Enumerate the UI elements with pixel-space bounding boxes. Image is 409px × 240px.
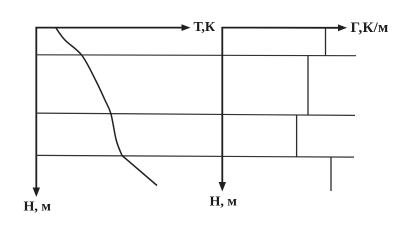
temperature profile curve — [56, 28, 157, 186]
left diagram H axis (vertical, arrow down) — [35, 27, 37, 189]
level line L3 across both diagrams — [36, 155, 354, 157]
svg-text:Н, м: Н, м — [210, 195, 238, 210]
gradient staircase segment v3 — [296, 115, 298, 157]
right diagram G axis (horizontal, arrow right) — [221, 27, 340, 29]
right G-axis arrowhead — [338, 24, 347, 31]
svg-text:Г,К/м: Г,К/м — [351, 20, 389, 36]
level line L1 across both diagrams — [36, 54, 356, 57]
level line L2 across both diagrams — [36, 113, 355, 115]
svg-text:Т,К: Т,К — [194, 20, 216, 35]
left axis arrowhead — [33, 188, 40, 198]
gradient staircase segment v1 — [325, 28, 327, 56]
right axis arrowhead — [219, 182, 226, 192]
left diagram T axis (horizontal, arrow right) — [35, 27, 183, 29]
gradient staircase segment v4 — [330, 157, 332, 191]
right diagram H axis (vertical, arrow down) — [221, 27, 223, 184]
gradient staircase segment v2 — [307, 55, 309, 115]
wire: left vertical axis — [35, 27, 37, 189]
svg-text:Н, м: Н, м — [24, 200, 52, 215]
left T-axis arrowhead — [182, 24, 191, 31]
